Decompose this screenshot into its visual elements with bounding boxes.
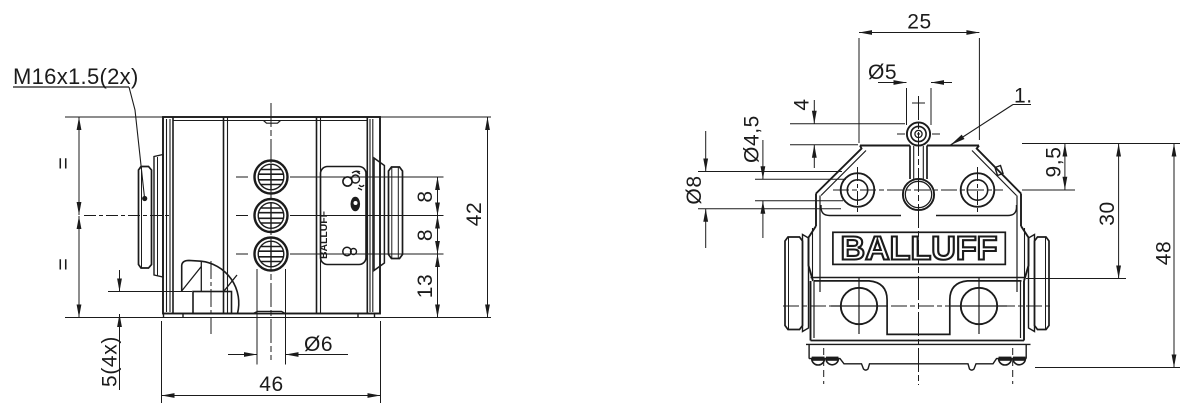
- terminal screw 3: [255, 238, 288, 271]
- 48 dimension: [1035, 367, 1180, 369]
- top extension line: [65, 116, 491, 118]
- cert icons on panel: [343, 177, 352, 186]
- svg-text:Ø5: Ø5: [868, 61, 897, 84]
- centerline ticks: [236, 215, 248, 217]
- svg-text:5(4x): 5(4x): [99, 336, 122, 387]
- 8/8/13 chain dimension: [290, 176, 444, 178]
- BALLUFF logo plate: [833, 232, 1005, 264]
- svg-text:4: 4: [791, 98, 814, 110]
- bottom shallow arc: [253, 311, 286, 313]
- block under dome: [193, 292, 232, 314]
- right view: front view of limit switch: [783, 96, 1050, 385]
- terminal screw 2: [255, 199, 288, 232]
- upper section side edges: [815, 194, 817, 227]
- vertical centerline through screws: [270, 103, 272, 360]
- svg-text:25: 25: [907, 11, 932, 34]
- dome mechanism bottom left: [182, 260, 239, 313]
- lower section top edge: [811, 277, 1025, 279]
- 4 dimension: [790, 123, 905, 125]
- top chamfer diagonals: [816, 146, 862, 194]
- lower mounting holes: [841, 288, 877, 324]
- 9,5 dimension: [1022, 143, 1180, 145]
- left cable gland flange: [154, 155, 163, 278]
- left view feet: [163, 314, 165, 318]
- body top edge: [860, 145, 910, 147]
- small tab on right diagonal: [995, 166, 1003, 176]
- diameter 5 dimension: [906, 88, 908, 125]
- top inner edge: [173, 120, 367, 122]
- left gland centerline: [84, 215, 170, 217]
- hidden lines through feet: [823, 348, 825, 384]
- svg-text:M16x1.5(2x): M16x1.5(2x): [13, 64, 139, 89]
- boss bottom edge with fillets: [821, 205, 901, 216]
- equal-spacing dimension chain left: [78, 117, 80, 215]
- right side cap: [1029, 235, 1035, 332]
- left view: side view of limit switch body: [84, 103, 403, 360]
- upper hole bosses: [841, 173, 875, 207]
- vertical centerlines of upper holes: [857, 167, 859, 213]
- center plunger hole: [903, 179, 934, 210]
- upper holes horizontal centerline: [833, 189, 1003, 191]
- band section step-out edges: [809, 226, 817, 281]
- 25 dimension: [858, 38, 860, 143]
- 46 dimension: [161, 321, 163, 403]
- svg-text:8: 8: [414, 190, 437, 202]
- left side cap: [803, 235, 809, 332]
- right side cap: [389, 167, 403, 259]
- svg-text:13: 13: [414, 274, 437, 299]
- 30 dimension: [1026, 278, 1126, 280]
- centerline ticks: [236, 176, 248, 178]
- label panel: [321, 167, 367, 265]
- svg-text:Ø8: Ø8: [683, 175, 706, 204]
- right side flange: [374, 158, 384, 271]
- plunger roller: [907, 122, 930, 145]
- left cable gland cap: [139, 167, 152, 269]
- centerline ticks: [236, 253, 248, 255]
- svg-text:=: =: [52, 258, 75, 271]
- lower section side edges: [810, 281, 812, 341]
- svg-text:=: =: [52, 157, 75, 170]
- body outline left view: [163, 117, 380, 314]
- diameter 6 dimension: [256, 269, 258, 365]
- 5(4x) dimension: [108, 291, 192, 293]
- svg-text:9,5: 9,5: [1043, 147, 1066, 178]
- lower boss outline with notch: [814, 281, 1022, 335]
- bottom extension line: [65, 317, 491, 319]
- svg-text:42: 42: [463, 202, 486, 227]
- svg-text:46: 46: [259, 373, 284, 396]
- vertical seams: [223, 117, 225, 314]
- base bottom with feet: [809, 359, 1026, 371]
- main vertical centerline: [918, 96, 920, 385]
- svg-text:Ø6: Ø6: [304, 333, 333, 356]
- svg-text:BALLUFF: BALLUFF: [319, 211, 330, 259]
- svg-text:Ø4,5: Ø4,5: [741, 115, 764, 163]
- 42 dimension: [487, 117, 489, 318]
- svg-text:8: 8: [414, 229, 437, 241]
- plunger shaft: [909, 146, 911, 180]
- bottom edge and base: [811, 340, 1025, 342]
- svg-text:48: 48: [1153, 241, 1176, 266]
- svg-text:30: 30: [1096, 201, 1119, 226]
- svg-text:BALLUFF: BALLUFF: [841, 230, 998, 267]
- lower circles horizontal centerline: [783, 305, 1050, 307]
- diameter 8 dimension: [698, 171, 842, 173]
- terminal screw 1: [255, 161, 288, 194]
- diameter 4,5 dimension: [755, 178, 846, 180]
